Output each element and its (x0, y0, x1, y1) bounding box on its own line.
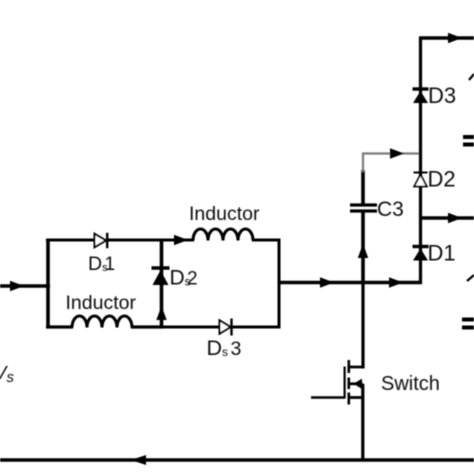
arrow: current up into C3 (358, 244, 368, 259)
wire: left cell top edge (right part) (106, 239, 163, 242)
wire: output node to rail (279, 281, 422, 285)
arrow: mid output current (448, 213, 462, 223)
wire: right cell bottom edge (left part) (160, 326, 220, 329)
wire: left cell left edge (46, 239, 50, 329)
wire: cut-off stub at edge (lower) (467, 275, 474, 281)
svg-text:Inductor: Inductor (66, 292, 137, 314)
transistor Q1 (MOSFET switch) (345, 360, 365, 405)
arrow: current up middle branch (156, 306, 166, 320)
wire: C3 upper lead (361, 170, 365, 205)
inductor L1 (Inductor) (72, 316, 132, 328)
svg-text:Ds2: Ds2 (170, 267, 198, 290)
svg-text:D1: D1 (428, 241, 456, 266)
wire: left cell bottom edge (left part) (46, 325, 73, 328)
diode Ds3 (220, 319, 232, 336)
diode Ds2 (152, 268, 170, 285)
wire: switch source to return (361, 384, 364, 461)
svg-text:Ds1: Ds1 (88, 253, 115, 275)
svg-text:Vs: Vs (0, 363, 15, 386)
inductor L2 (Inductor) (193, 229, 253, 241)
wire: left cell bottom edge (right part) (131, 325, 163, 328)
wire: left cell top edge (46, 239, 95, 242)
svg-text:D3: D3 (428, 83, 456, 108)
wire: right cell top edge (162, 239, 195, 242)
capacitor C1 (cut off at right edge) (462, 320, 474, 328)
svg-text:Inductor: Inductor (189, 203, 260, 225)
diode Ds1 (95, 233, 108, 248)
wire: top output (419, 36, 474, 39)
wire: right cell right edge (278, 239, 281, 329)
svg-text:Ds3: Ds3 (207, 336, 242, 360)
wire: switch drain (361, 281, 364, 369)
wire: cut-off stub at edge (upper) (469, 74, 474, 80)
arrow: top output current (448, 33, 462, 43)
wire: right cell top edge (right part) (252, 239, 281, 242)
svg-text:D2: D2 (428, 167, 456, 192)
diode D2 (414, 173, 428, 187)
svg-text:Switch: Switch (381, 373, 440, 395)
wire: C3 to rail (thin) (363, 154, 419, 173)
capacitor C2 (cut off at right edge) (463, 137, 474, 145)
arrow: return current direction (131, 455, 146, 465)
wire: middle vertical branch (160, 239, 164, 329)
arrow: current to rail (390, 148, 404, 158)
wire: switch gate lead (311, 396, 345, 398)
arrow: current into top inductor (174, 235, 188, 245)
arrow: input current direction (10, 281, 24, 291)
diode D3 (413, 89, 429, 103)
arrow: output current 1 (320, 277, 334, 287)
wire: input from source Vs (0, 284, 50, 288)
wire: right cell bottom edge (right part) (231, 326, 281, 329)
svg-text:C3: C3 (377, 198, 404, 221)
wire: return (bottom) (0, 458, 474, 461)
arrow: output current 2 (389, 277, 403, 287)
wire: right rail (419, 37, 422, 285)
capacitor C3 (350, 205, 377, 211)
wire: C3 lower lead (361, 211, 365, 284)
diode D1 (413, 247, 429, 261)
wire: mid output (419, 216, 474, 219)
